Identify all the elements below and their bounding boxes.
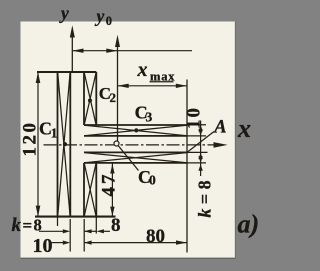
svg-text:2: 2 [110, 90, 117, 105]
left plate X bracing [58, 73, 70, 217]
right plate outline upper part [83, 72, 85, 125]
svg-text:y: y [95, 6, 105, 26]
arm right end edge and extension line [186, 80, 188, 253]
svg-text:1: 1 [51, 125, 58, 140]
right plate X bracing upper [84, 73, 96, 125]
section bottom edge [35, 216, 116, 218]
sheet edge shading [21, 257, 236, 259]
dimension x_max [118, 85, 188, 87]
y axis [71, 30, 73, 72]
svg-text:x: x [237, 114, 251, 143]
dimension 120 line [37, 72, 39, 217]
svg-text:120: 120 [19, 121, 40, 157]
svg-text:47: 47 [99, 172, 120, 197]
bottom extension lines [58, 218, 97, 252]
dimension line between y and y0 [72, 50, 192, 52]
svg-text:10: 10 [33, 235, 53, 257]
svg-text:y: y [59, 3, 69, 23]
svg-text:A: A [213, 118, 226, 138]
upper strip X bracing [85, 125, 187, 136]
upper strip outline [84, 124, 187, 126]
x axis dash-dot line [44, 144, 222, 146]
svg-text:k: k [12, 215, 22, 236]
y0 axis [117, 40, 119, 142]
bottom dimension line for 10 and 80 [52, 242, 67, 244]
right plate outline lower part [83, 163, 85, 217]
svg-text:k = 8: k = 8 [195, 180, 215, 217]
dimension 47 line [111, 164, 113, 217]
left plate outline [57, 72, 59, 217]
right vertical dimension line for 10 and k=8 [200, 121, 202, 177]
svg-text:x: x [137, 59, 148, 81]
right side extension lines [187, 125, 208, 163]
C0 circle marker [114, 141, 119, 146]
C1 dot [63, 142, 67, 146]
k=8 dimension line and arrows [39, 230, 67, 232]
lower strip outline [84, 151, 187, 153]
right plate X bracing lower [84, 163, 96, 216]
svg-text:а): а) [238, 210, 260, 239]
white drawing sheet [21, 22, 236, 259]
svg-text:80: 80 [146, 226, 165, 247]
lower strip X bracing [85, 153, 187, 163]
svg-text:0: 0 [149, 172, 156, 187]
C2 dot [88, 98, 92, 102]
section top edge [37, 71, 96, 73]
svg-text:3: 3 [146, 109, 153, 124]
dimension 8 arrows (right plate) [84, 229, 91, 233]
svg-text:=: = [23, 216, 33, 235]
C3 dot [134, 128, 138, 132]
A leader line [188, 132, 215, 153]
x axis arrowhead [214, 142, 228, 148]
svg-text:8: 8 [111, 215, 121, 236]
C0 leader line [118, 146, 138, 171]
svg-text:10: 10 [184, 106, 205, 129]
svg-text:0: 0 [106, 14, 112, 28]
